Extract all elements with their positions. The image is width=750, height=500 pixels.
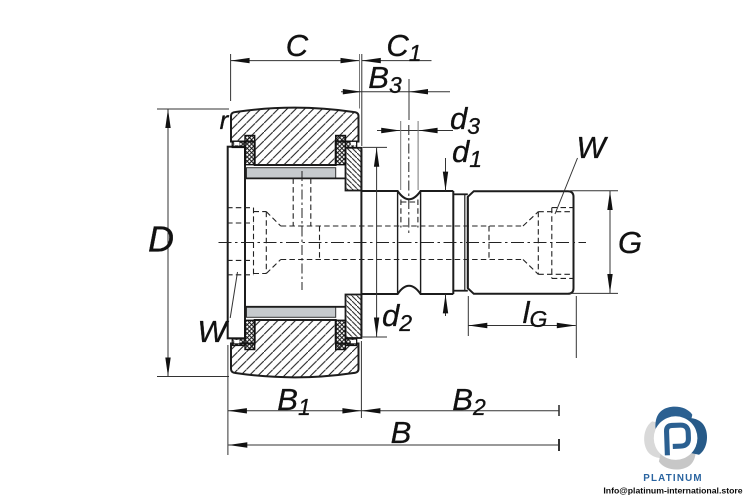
dim C1 line xyxy=(362,60,432,62)
grease hole 1 left edge xyxy=(292,178,294,226)
right hex socket flat top xyxy=(538,211,573,213)
svg-text:C1: C1 xyxy=(386,28,421,66)
logo petal top blue xyxy=(655,407,692,429)
race line bottom xyxy=(245,306,346,308)
svg-text:d1: d1 xyxy=(452,134,482,172)
right hex socket corner depth xyxy=(551,208,553,279)
left socket cone top xyxy=(266,212,280,226)
arrow C1 left xyxy=(362,58,381,63)
seal S4 lip notch xyxy=(351,340,356,343)
svg-text:Info@platinum-international.st: Info@platinum-international.store xyxy=(603,486,742,496)
svg-text:B3: B3 xyxy=(368,60,402,98)
neck top edge xyxy=(453,193,468,195)
arrow d1 down xyxy=(443,172,448,191)
svg-text:lG: lG xyxy=(523,295,548,332)
dim d2 line xyxy=(376,148,378,337)
right end plate top block xyxy=(346,148,362,191)
right hex socket outer bottom xyxy=(552,277,574,279)
grease hole 2 left edge xyxy=(400,200,402,228)
ext line B3 hole center xyxy=(408,79,410,120)
tick B2 end xyxy=(558,405,560,416)
svg-text:r: r xyxy=(220,105,230,135)
ext line G bottom xyxy=(570,292,618,294)
left hex socket flat bottom xyxy=(227,259,253,261)
svg-text:PLATINUM: PLATINUM xyxy=(643,473,702,484)
arrow d3 right (points left) xyxy=(419,128,438,133)
ext line C1-B3 reference xyxy=(361,54,363,146)
left hex socket corner depth xyxy=(253,208,255,275)
ext line lG left xyxy=(467,296,469,336)
bore step at thread xyxy=(488,226,490,260)
leader W left xyxy=(230,272,237,318)
arrow lG left xyxy=(468,323,487,328)
arrow B3 left (points right) xyxy=(343,89,362,94)
main centerline xyxy=(219,242,587,244)
right socket cone bottom xyxy=(523,260,538,275)
neck bottom edge xyxy=(453,290,468,292)
grease hole 1 centerline xyxy=(301,171,303,290)
right hex socket flat bottom xyxy=(538,273,573,275)
needle roller band bottom xyxy=(247,307,336,318)
seal S3 bottom-left lip xyxy=(232,339,245,346)
grease hole 2 right edge xyxy=(417,200,419,228)
grease hole 2 centerline xyxy=(408,125,410,236)
arrow B left xyxy=(228,442,247,447)
seal S4 bottom-right lip xyxy=(346,339,357,346)
seal S2 top-right lip xyxy=(346,142,357,148)
dim lG line xyxy=(468,325,576,327)
ext line C left xyxy=(230,54,232,101)
arrow C right xyxy=(341,58,360,63)
right socket cone top xyxy=(523,212,538,226)
logo petal left light-gray xyxy=(644,421,666,458)
dim G line xyxy=(609,191,611,293)
right end plate bottom block xyxy=(346,295,362,339)
ext line C right xyxy=(359,54,361,109)
svg-text:d2: d2 xyxy=(382,298,412,336)
left flange washer plate xyxy=(228,147,245,339)
arrow B1 left xyxy=(228,408,247,413)
ext line d3 right xyxy=(417,121,419,190)
seal S2 top-right body xyxy=(336,136,346,165)
left hex socket inner rect bottom xyxy=(254,273,267,275)
neck fillet line xyxy=(464,194,466,290)
stud d1 bottom edge with relief groove dip xyxy=(361,286,453,294)
ext line G top xyxy=(570,190,618,192)
left hex socket flat top xyxy=(227,222,253,224)
leader W right xyxy=(555,158,578,214)
d1 step face xyxy=(452,191,454,294)
right hex socket outer top xyxy=(552,207,574,209)
arrow d1 up xyxy=(443,294,448,313)
arrow D down xyxy=(165,358,170,377)
dim B1 line xyxy=(228,410,362,412)
arrow d2 up xyxy=(374,148,379,167)
seal S3 lip notch xyxy=(234,340,239,343)
ext line B left xyxy=(227,345,229,455)
arrow d3 left (points right) xyxy=(381,128,400,133)
ext line D top xyxy=(157,108,229,110)
stud face plane xyxy=(360,148,362,337)
groove wall line right xyxy=(420,192,422,293)
dim d1 lower segment xyxy=(445,294,447,316)
dim B2 line xyxy=(361,410,559,412)
axial bore top line xyxy=(281,225,523,227)
arrow C left xyxy=(231,58,250,63)
arrow B1 right xyxy=(342,408,361,413)
seal S3 bottom-left body xyxy=(245,320,255,349)
dim d3 line xyxy=(377,130,453,132)
seal S2 lip notch xyxy=(351,142,356,145)
thread start edge xyxy=(467,197,469,288)
race line top xyxy=(245,177,346,179)
grease hole 2 cap xyxy=(401,201,418,203)
svg-text:W: W xyxy=(197,314,229,349)
svg-text:G: G xyxy=(618,225,642,260)
left socket cone bottom xyxy=(266,260,280,274)
seal S1 top-left body xyxy=(245,136,255,165)
ext line B1-B2 reference xyxy=(360,341,362,418)
svg-text:C: C xyxy=(286,28,309,63)
stud d1 top edge with relief groove dip xyxy=(361,191,453,199)
logo P mark xyxy=(666,425,689,455)
logo petal right blue xyxy=(685,418,707,455)
left hex socket outer bottom xyxy=(227,274,253,276)
arrow lG right xyxy=(557,323,576,328)
dim D line xyxy=(167,109,169,377)
seal S1 lip notch xyxy=(234,142,239,145)
left hex socket outer top xyxy=(227,207,253,209)
left hex socket inner rect top xyxy=(254,211,267,213)
svg-text:D: D xyxy=(148,219,174,260)
left hex socket flat depth xyxy=(265,212,267,274)
seal S1 top-left lip xyxy=(232,142,245,148)
svg-text:B2: B2 xyxy=(452,382,486,420)
seal S4 bottom-right body xyxy=(336,320,346,349)
svg-text:W: W xyxy=(576,130,608,165)
svg-text:B1: B1 xyxy=(277,382,310,420)
logo white disc xyxy=(654,416,698,460)
counterbore step xyxy=(319,226,321,260)
outer ring OR1 top half xyxy=(231,108,359,165)
dim B line xyxy=(228,444,559,446)
right hex socket flat depth xyxy=(537,212,539,275)
arrow G up xyxy=(607,191,612,210)
needle roller band top xyxy=(247,168,336,179)
grease hole 1 right edge xyxy=(310,178,312,226)
tick B end xyxy=(558,439,560,451)
arrow d2 down xyxy=(374,318,379,337)
groove wall line left xyxy=(397,192,399,293)
outer ring OR1 bottom half xyxy=(231,320,359,377)
dim d1 upper segment xyxy=(445,158,447,191)
arrow B2 left xyxy=(361,408,380,413)
arrow D up xyxy=(165,109,170,128)
dim C line xyxy=(231,60,360,62)
svg-text:B: B xyxy=(391,415,412,450)
ext line lG right xyxy=(575,296,577,358)
ext line d3 left xyxy=(400,121,402,190)
axial bore bottom line xyxy=(281,259,523,261)
dim B3 line xyxy=(341,91,450,93)
ext line D bottom xyxy=(157,376,229,378)
arrow G down xyxy=(607,274,612,293)
logo petal bottom gray xyxy=(659,447,696,469)
ext line d2 bottom xyxy=(363,336,388,338)
ext line d2 top xyxy=(363,146,388,148)
thread section outline xyxy=(468,191,574,294)
arrow B3 right (points left) xyxy=(409,89,428,94)
